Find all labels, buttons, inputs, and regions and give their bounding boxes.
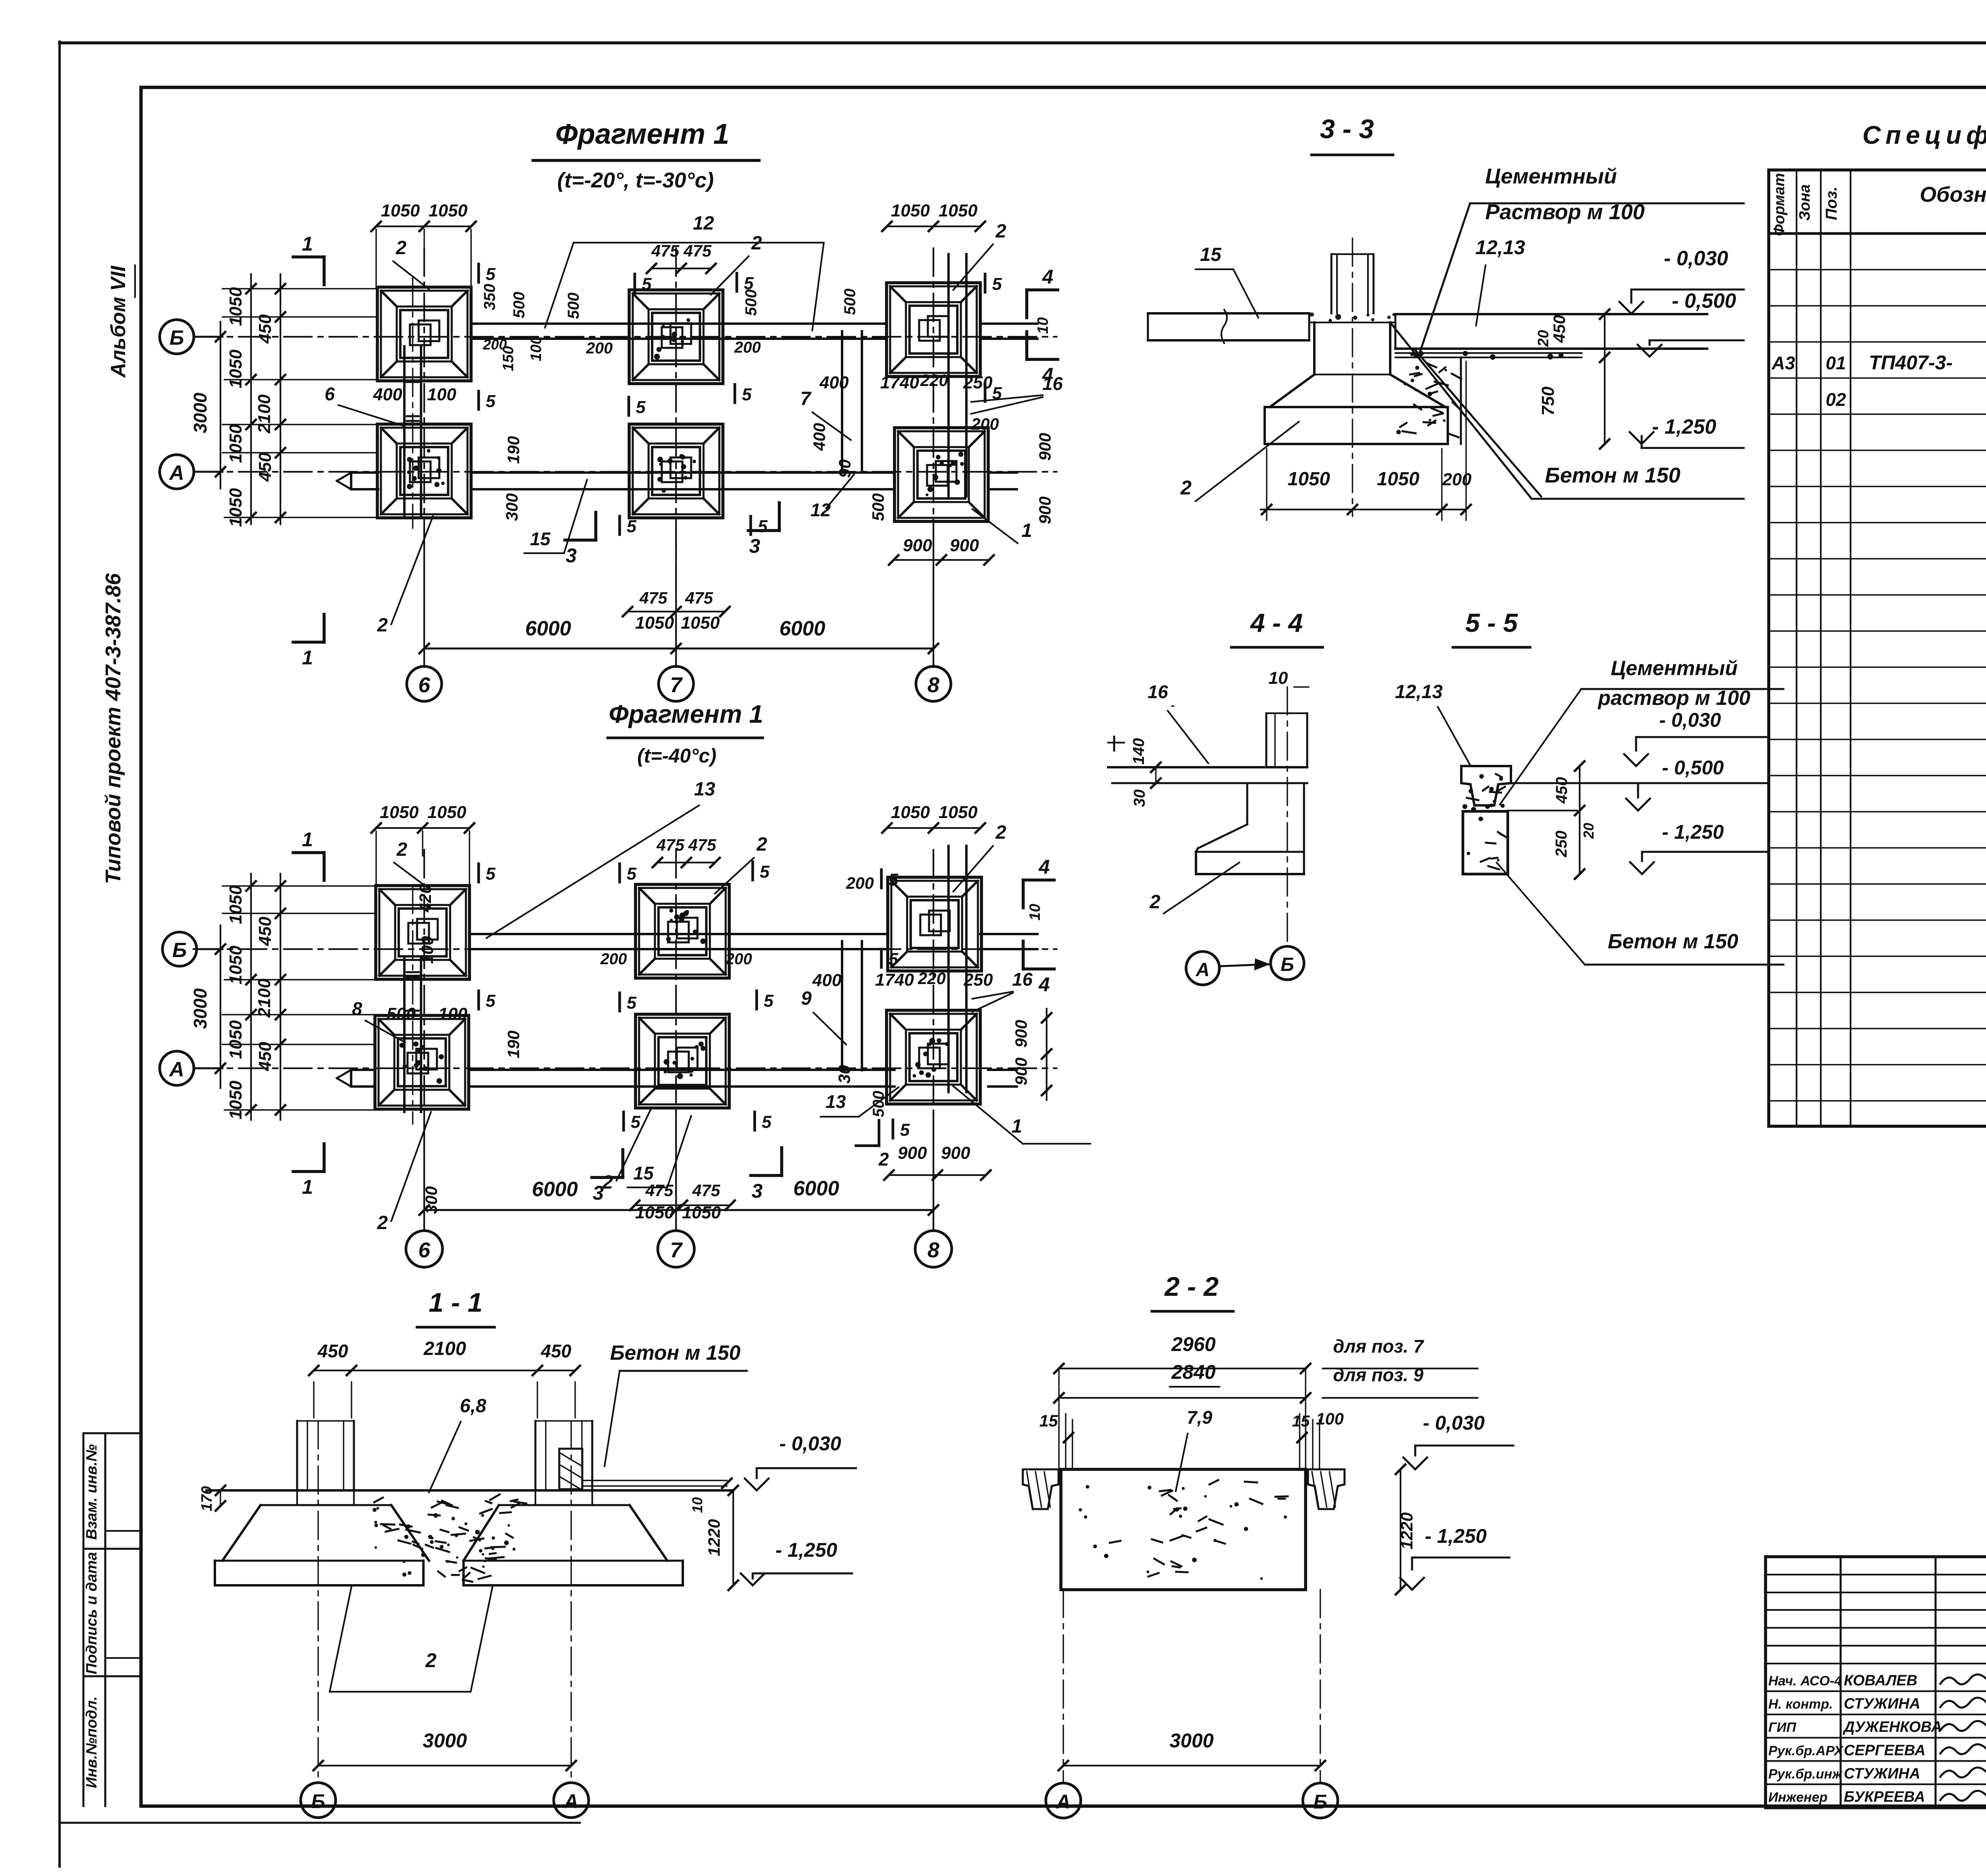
- svg-text:1740: 1740: [880, 373, 919, 392]
- svg-text:15: 15: [633, 1163, 654, 1183]
- svg-text:Б: Б: [1281, 954, 1294, 975]
- svg-text:Инженер: Инженер: [1768, 1790, 1828, 1805]
- svg-text:3000: 3000: [1169, 1729, 1213, 1752]
- svg-text:100: 100: [528, 336, 545, 361]
- svg-text:450: 450: [255, 917, 275, 946]
- svg-text:5: 5: [889, 950, 898, 969]
- svg-text:4 - 4: 4 - 4: [1250, 608, 1303, 637]
- svg-text:200: 200: [600, 950, 627, 968]
- svg-text:Цементный: Цементный: [1611, 657, 1737, 680]
- svg-text:900: 900: [950, 536, 979, 555]
- svg-text:1050: 1050: [380, 803, 419, 822]
- svg-text:750: 750: [1538, 386, 1558, 416]
- svg-text:Альбом VII: Альбом VII: [107, 265, 130, 378]
- svg-text:450: 450: [317, 1341, 348, 1361]
- svg-text:1050: 1050: [1377, 469, 1420, 490]
- svg-text:Фрагмент 1: Фрагмент 1: [555, 118, 729, 150]
- svg-text:Рук.бр.АРХ: Рук.бр.АРХ: [1768, 1743, 1844, 1758]
- svg-text:5: 5: [642, 274, 652, 294]
- svg-text:СЕРГЕЕВА: СЕРГЕЕВА: [1844, 1742, 1926, 1759]
- svg-text:для поз. 7: для поз. 7: [1333, 1336, 1424, 1357]
- svg-text:1220: 1220: [1397, 1512, 1416, 1549]
- svg-text:1050: 1050: [226, 287, 245, 326]
- svg-text:Рук.бр.инж: Рук.бр.инж: [1768, 1766, 1843, 1781]
- svg-text:3000: 3000: [423, 1729, 467, 1752]
- svg-text:15: 15: [1200, 244, 1222, 265]
- svg-text:3: 3: [749, 535, 760, 557]
- svg-text:2100: 2100: [255, 394, 274, 434]
- svg-text:Раствор м 100: Раствор м 100: [1485, 200, 1644, 224]
- svg-text:2: 2: [377, 615, 388, 636]
- svg-text:900: 900: [1036, 496, 1054, 524]
- svg-text:1050: 1050: [427, 803, 466, 822]
- svg-text:100: 100: [438, 1004, 468, 1024]
- svg-text:Поз.: Поз.: [1823, 187, 1840, 220]
- svg-text:450: 450: [1550, 315, 1569, 343]
- svg-text:Подпись и дата: Подпись и дата: [83, 1552, 100, 1674]
- svg-text:5: 5: [764, 991, 774, 1011]
- svg-text:13: 13: [825, 1091, 846, 1112]
- svg-text:3: 3: [752, 1180, 763, 1202]
- svg-text:5: 5: [992, 274, 1002, 294]
- svg-text:3 - 3: 3 - 3: [1320, 114, 1374, 144]
- svg-text:15: 15: [1292, 1413, 1310, 1430]
- svg-text:1050: 1050: [939, 803, 978, 822]
- svg-text:7: 7: [670, 673, 683, 697]
- svg-text:250: 250: [963, 373, 993, 392]
- svg-text:10: 10: [1035, 317, 1051, 334]
- svg-text:7,9: 7,9: [1187, 1407, 1212, 1428]
- svg-text:12: 12: [693, 213, 714, 234]
- svg-text:400: 400: [819, 373, 849, 392]
- svg-text:475: 475: [688, 836, 717, 854]
- svg-text:4: 4: [1038, 856, 1050, 878]
- svg-text:2: 2: [425, 1649, 437, 1671]
- svg-text:900: 900: [903, 536, 932, 555]
- svg-text:190: 190: [504, 436, 523, 464]
- svg-text:450: 450: [1553, 777, 1571, 804]
- svg-text:1050: 1050: [635, 1203, 674, 1222]
- svg-text:5: 5: [742, 385, 752, 404]
- svg-text:Обозначение: Обозначение: [1920, 183, 1986, 207]
- svg-text:475: 475: [683, 241, 712, 260]
- svg-text:4: 4: [1038, 973, 1050, 996]
- svg-text:1050: 1050: [429, 201, 468, 220]
- svg-text:6000: 6000: [779, 617, 825, 640]
- svg-text:475: 475: [651, 241, 680, 260]
- svg-text:6,8: 6,8: [460, 1395, 487, 1417]
- svg-text:1050: 1050: [226, 1081, 245, 1119]
- svg-text:раствор м 100: раствор м 100: [1597, 687, 1750, 710]
- svg-text:420: 420: [416, 884, 435, 913]
- svg-text:20: 20: [1535, 330, 1552, 347]
- svg-text:900: 900: [1012, 1058, 1030, 1085]
- svg-text:15: 15: [530, 529, 551, 549]
- svg-text:200: 200: [586, 340, 613, 357]
- svg-text:6: 6: [325, 384, 335, 404]
- svg-text:100: 100: [427, 385, 456, 404]
- svg-text:- 1,250: - 1,250: [775, 1539, 837, 1561]
- svg-text:400: 400: [373, 385, 402, 404]
- svg-text:16: 16: [1148, 681, 1168, 702]
- svg-text:2: 2: [1180, 477, 1192, 499]
- svg-text:2: 2: [602, 1172, 613, 1193]
- svg-text:ТП407-3-: ТП407-3-: [1869, 351, 1953, 374]
- svg-text:9: 9: [801, 988, 812, 1009]
- svg-text:300: 300: [422, 1186, 440, 1214]
- svg-text:500: 500: [386, 1004, 416, 1024]
- svg-text:1: 1: [302, 828, 313, 851]
- svg-text:- 0,030: - 0,030: [1664, 247, 1728, 270]
- svg-text:200: 200: [483, 336, 507, 353]
- svg-text:(t=-20°, t=-30°с): (t=-20°, t=-30°с): [557, 168, 714, 192]
- svg-text:Спецификация на один эле: Спецификация на один элемент: [1862, 121, 1986, 149]
- svg-text:900: 900: [1036, 433, 1054, 461]
- svg-text:1050: 1050: [939, 201, 978, 220]
- svg-text:2: 2: [377, 1212, 388, 1233]
- svg-text:Типовой проект 407-3-387.86: Типовой проект 407-3-387.86: [101, 573, 125, 884]
- svg-text:475: 475: [639, 589, 668, 607]
- svg-text:5 - 5: 5 - 5: [1465, 608, 1518, 637]
- svg-text:Цементный: Цементный: [1485, 164, 1617, 188]
- svg-text:БУКРЕЕВА: БУКРЕЕВА: [1844, 1789, 1925, 1805]
- svg-text:- 0,030: - 0,030: [1423, 1412, 1485, 1434]
- svg-text:300: 300: [502, 493, 521, 521]
- svg-text:6000: 6000: [793, 1177, 839, 1200]
- svg-text:220: 220: [920, 371, 948, 390]
- svg-text:5: 5: [486, 864, 496, 884]
- svg-text:450: 450: [255, 452, 275, 482]
- svg-text:5: 5: [992, 384, 1002, 403]
- svg-text:КОВАЛЕВ: КОВАЛЕВ: [1844, 1672, 1917, 1689]
- svg-text:Бетон м 150: Бетон м 150: [1608, 930, 1739, 953]
- svg-text:1050: 1050: [226, 946, 245, 984]
- svg-text:1050: 1050: [891, 803, 930, 822]
- svg-text:- 1,250: - 1,250: [1425, 1525, 1487, 1547]
- svg-text:7: 7: [800, 388, 812, 409]
- svg-text:2960: 2960: [1171, 1333, 1215, 1355]
- svg-text:900: 900: [898, 1143, 927, 1163]
- svg-text:10: 10: [1269, 668, 1288, 688]
- svg-text:02: 02: [1826, 389, 1846, 410]
- svg-text:1: 1: [1012, 1116, 1022, 1137]
- svg-text:Фрагмент 1: Фрагмент 1: [609, 700, 763, 728]
- svg-text:400: 400: [812, 971, 842, 990]
- svg-text:200: 200: [725, 950, 752, 968]
- svg-text:- 0,030: - 0,030: [779, 1432, 841, 1455]
- svg-text:1: 1: [1022, 520, 1032, 541]
- svg-text:1: 1: [302, 233, 313, 255]
- svg-text:1050: 1050: [891, 201, 930, 220]
- svg-text:5: 5: [627, 517, 637, 536]
- svg-text:500: 500: [742, 290, 760, 316]
- svg-text:2 - 2: 2 - 2: [1164, 1272, 1219, 1302]
- svg-text:1: 1: [302, 1176, 313, 1198]
- svg-text:5: 5: [631, 1112, 641, 1132]
- svg-text:2: 2: [396, 237, 407, 259]
- svg-text:475: 475: [656, 836, 685, 854]
- svg-text:Нач. АСО-4: Нач. АСО-4: [1768, 1673, 1842, 1689]
- svg-text:100: 100: [418, 936, 437, 964]
- svg-text:15: 15: [1039, 1411, 1058, 1430]
- svg-text:200: 200: [846, 874, 874, 892]
- svg-text:475: 475: [692, 1181, 721, 1200]
- svg-text:170: 170: [199, 1486, 215, 1511]
- svg-text:220: 220: [918, 969, 946, 988]
- svg-text:- 0,030: - 0,030: [1659, 709, 1721, 731]
- svg-text:3000: 3000: [190, 988, 211, 1029]
- svg-text:2840: 2840: [1171, 1361, 1215, 1383]
- svg-text:350: 350: [481, 284, 498, 311]
- svg-text:900: 900: [941, 1143, 970, 1163]
- svg-text:190: 190: [504, 1031, 523, 1058]
- svg-text:Н. контр.: Н. контр.: [1768, 1697, 1833, 1712]
- svg-text:- 1,250: - 1,250: [1662, 821, 1724, 843]
- svg-text:10: 10: [689, 1497, 705, 1513]
- svg-text:1050: 1050: [381, 201, 420, 220]
- svg-text:Бетон м 150: Бетон м 150: [610, 1341, 741, 1365]
- svg-text:для поз. 9: для поз. 9: [1333, 1365, 1424, 1385]
- svg-text:30: 30: [835, 1065, 854, 1084]
- svg-text:1: 1: [302, 647, 313, 669]
- svg-text:4: 4: [1042, 266, 1053, 288]
- svg-text:450: 450: [541, 1341, 572, 1361]
- svg-text:СТУЖИНА: СТУЖИНА: [1844, 1765, 1920, 1782]
- svg-text:5: 5: [627, 993, 637, 1013]
- svg-text:2: 2: [1149, 892, 1161, 913]
- svg-text:А: А: [1055, 1791, 1070, 1813]
- svg-text:2: 2: [396, 839, 408, 860]
- svg-text:Б: Б: [311, 1790, 325, 1812]
- svg-text:5: 5: [627, 864, 637, 884]
- svg-text:1050: 1050: [635, 613, 674, 633]
- svg-text:10: 10: [1027, 904, 1043, 921]
- svg-text:СТУЖИНА: СТУЖИНА: [1844, 1696, 1920, 1712]
- svg-text:1740: 1740: [875, 970, 914, 990]
- svg-text:А: А: [168, 1058, 184, 1081]
- svg-text:20: 20: [1580, 823, 1597, 839]
- svg-text:475: 475: [685, 589, 713, 607]
- svg-text:13: 13: [694, 779, 715, 800]
- svg-text:500: 500: [841, 289, 859, 315]
- svg-text:500: 500: [565, 293, 582, 319]
- svg-text:900: 900: [1012, 1020, 1030, 1048]
- svg-text:500: 500: [510, 292, 528, 318]
- svg-text:475: 475: [645, 1181, 674, 1200]
- svg-text:Зона: Зона: [1797, 184, 1813, 221]
- svg-text:250: 250: [1553, 831, 1570, 858]
- svg-text:А: А: [563, 1790, 578, 1812]
- svg-text:5: 5: [486, 392, 496, 411]
- svg-text:Формат: Формат: [1771, 173, 1788, 236]
- svg-text:12: 12: [810, 500, 831, 520]
- svg-text:01: 01: [1826, 353, 1846, 373]
- svg-text:2: 2: [995, 822, 1007, 843]
- svg-text:Б: Б: [172, 939, 187, 962]
- svg-text:1050: 1050: [682, 1203, 721, 1222]
- svg-text:200: 200: [971, 415, 999, 433]
- svg-text:12,13: 12,13: [1395, 681, 1443, 703]
- svg-text:А: А: [168, 461, 184, 484]
- svg-text:8: 8: [352, 998, 362, 1019]
- svg-text:8: 8: [927, 673, 939, 697]
- svg-text:2100: 2100: [423, 1338, 466, 1359]
- svg-text:200: 200: [1442, 470, 1472, 489]
- svg-text:1050: 1050: [1288, 469, 1330, 490]
- svg-text:Б: Б: [170, 326, 184, 349]
- svg-text:140: 140: [1130, 738, 1148, 765]
- svg-text:5: 5: [889, 870, 898, 890]
- svg-text:2: 2: [878, 1149, 889, 1170]
- svg-text:1 - 1: 1 - 1: [429, 1287, 483, 1318]
- svg-text:2: 2: [756, 834, 767, 855]
- svg-text:Взам. инв.№: Взам. инв.№: [83, 1444, 100, 1540]
- svg-text:12,13: 12,13: [1475, 236, 1525, 259]
- svg-text:6: 6: [418, 673, 431, 697]
- svg-text:- 0,500: - 0,500: [1662, 757, 1724, 779]
- svg-text:500: 500: [869, 493, 887, 521]
- svg-text:3000: 3000: [190, 392, 211, 433]
- svg-text:5: 5: [486, 264, 496, 284]
- svg-text:5: 5: [760, 862, 770, 882]
- svg-text:ДУЖЕНКОВА: ДУЖЕНКОВА: [1843, 1719, 1942, 1735]
- svg-text:500: 500: [870, 1091, 887, 1117]
- svg-text:8: 8: [927, 1238, 939, 1262]
- svg-text:30: 30: [1131, 789, 1148, 807]
- svg-text:1050: 1050: [226, 488, 245, 527]
- svg-text:5: 5: [636, 398, 646, 417]
- svg-text:1050: 1050: [226, 349, 245, 388]
- svg-text:450: 450: [255, 314, 275, 344]
- svg-text:5: 5: [762, 1112, 772, 1132]
- svg-text:2100: 2100: [255, 979, 274, 1018]
- svg-text:100: 100: [1316, 1409, 1344, 1428]
- svg-text:2: 2: [751, 233, 762, 254]
- svg-text:2: 2: [995, 221, 1007, 242]
- svg-text:16: 16: [1012, 969, 1033, 990]
- svg-text:Б: Б: [1313, 1791, 1327, 1813]
- svg-text:(t=-40°с): (t=-40°с): [637, 745, 716, 767]
- svg-text:Бетон м 150: Бетон м 150: [1545, 463, 1680, 487]
- svg-text:6000: 6000: [532, 1178, 578, 1201]
- svg-text:1050: 1050: [226, 1020, 245, 1059]
- svg-text:1050: 1050: [681, 613, 720, 633]
- svg-text:450: 450: [255, 1042, 275, 1071]
- svg-text:- 0,500: - 0,500: [1672, 290, 1736, 313]
- svg-text:1050: 1050: [226, 424, 245, 463]
- svg-text:7: 7: [670, 1238, 683, 1262]
- svg-text:90: 90: [835, 459, 854, 478]
- svg-text:400: 400: [810, 423, 829, 451]
- svg-text:ГИП: ГИП: [1768, 1720, 1797, 1735]
- svg-text:6: 6: [418, 1238, 431, 1262]
- svg-text:А3: А3: [1772, 353, 1795, 373]
- svg-text:6000: 6000: [525, 617, 571, 640]
- svg-text:3: 3: [566, 544, 577, 567]
- svg-text:1050: 1050: [226, 885, 245, 924]
- svg-text:- 1,250: - 1,250: [1652, 415, 1716, 438]
- svg-text:А: А: [1196, 959, 1210, 980]
- svg-text:1220: 1220: [705, 1519, 723, 1556]
- svg-text:16: 16: [1042, 373, 1063, 394]
- svg-text:5: 5: [486, 991, 496, 1011]
- svg-text:200: 200: [734, 339, 761, 356]
- svg-text:5: 5: [900, 1120, 910, 1140]
- svg-text:5: 5: [758, 517, 768, 536]
- svg-text:Инв.№подл.: Инв.№подл.: [83, 1696, 100, 1788]
- svg-text:250: 250: [963, 970, 993, 990]
